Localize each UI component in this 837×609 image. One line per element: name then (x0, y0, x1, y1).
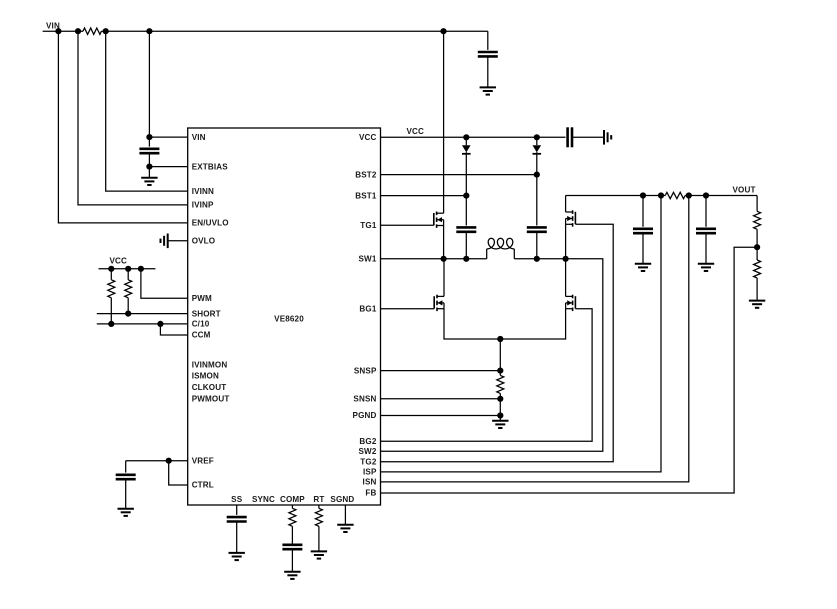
wire VREF (126, 460, 188, 462)
wire PWM (141, 269, 188, 298)
ground input cap (480, 87, 496, 94)
svg-text:SW1: SW1 (359, 255, 377, 264)
pin label CLKOUT (192, 383, 227, 392)
svg-text:IVINMON: IVINMON (192, 361, 228, 370)
wire BG1 (381, 308, 435, 310)
capacitor C8 BST2 (527, 175, 547, 259)
ground EXTBIAS cap (141, 178, 157, 185)
svg-text:FB: FB (365, 489, 376, 498)
wire SW2 rail (514, 258, 565, 260)
pin label PWM (192, 294, 212, 303)
transistor Q4 (566, 295, 576, 311)
svg-text:VCC: VCC (110, 257, 128, 266)
wire SS (236, 505, 238, 515)
pin label SNSN (353, 395, 376, 404)
svg-text:BG2: BG2 (359, 437, 376, 446)
wire SNSN (381, 398, 501, 400)
U1 name label (274, 315, 304, 324)
wire FB gnd (756, 278, 758, 301)
pin label ISN (363, 478, 377, 487)
junction FB (754, 244, 760, 250)
wire COMP (291, 505, 293, 508)
capacitor C5 COMP (282, 545, 302, 572)
transistor Q3 (566, 210, 576, 226)
ground FB divider (749, 301, 765, 308)
resistor R4 COMP (289, 508, 296, 526)
svg-text:SGND: SGND (330, 495, 354, 504)
capacitor C6 VCC bypass (568, 127, 604, 147)
wire Q2 drain (443, 259, 445, 297)
svg-text:VIN: VIN (192, 133, 206, 142)
junction VCC D1 (463, 134, 469, 140)
pin label BG2 (359, 437, 376, 446)
wire VCC net (381, 136, 566, 138)
svg-text:BST1: BST1 (355, 191, 377, 200)
svg-text:BST2: BST2 (355, 170, 377, 179)
resistor R6 sense (497, 375, 504, 393)
junction VIN rail d (146, 28, 152, 34)
pin label SS (231, 495, 243, 504)
svg-text:SHORT: SHORT (192, 309, 221, 318)
svg-text:TG2: TG2 (360, 458, 377, 467)
wire COMP mid (291, 526, 293, 545)
wire EXTBIAS pin (149, 166, 187, 168)
wire SGND (344, 505, 346, 525)
pin label SGND (330, 495, 354, 504)
wire BST1 (381, 195, 467, 197)
svg-text:IVINN: IVINN (192, 187, 214, 196)
wire EXTBIAS drop (148, 153, 150, 178)
ground PGND (492, 421, 508, 428)
pin label PWMOUT (192, 395, 230, 404)
wire SW2 to pin (381, 259, 603, 451)
junction VIN rail e (440, 28, 446, 34)
node VIN label (46, 22, 60, 31)
pin label CTRL (192, 481, 214, 490)
svg-text:C/10: C/10 (192, 320, 210, 329)
junction VCC bar b (125, 266, 131, 272)
node VCC label left (110, 257, 128, 266)
svg-text:PGND: PGND (353, 411, 377, 420)
junction VOUT c (686, 192, 692, 198)
wire Q4 source (500, 303, 565, 339)
wire VIN rail left (43, 30, 83, 32)
wire Q4 drain (565, 259, 567, 297)
ground RT (311, 551, 327, 558)
junction VOUT b (658, 192, 664, 198)
wire FB mid (756, 229, 758, 260)
svg-text:VCC: VCC (407, 127, 425, 136)
wire VOUT rail (566, 195, 666, 197)
wire VOUT drop (756, 196, 758, 212)
pin label IVINMON (192, 361, 228, 370)
svg-text:TG1: TG1 (360, 221, 377, 230)
pin label ISP (363, 468, 377, 477)
diode D2 (533, 137, 542, 174)
junction C/10 R2 (108, 321, 114, 327)
wire SNSP (381, 370, 501, 372)
wire CTRL (169, 461, 188, 485)
pin label VCC (359, 133, 377, 142)
pin label EN/UVLO (192, 219, 229, 228)
wire VOUT rail b (685, 195, 757, 197)
svg-text:VOUT: VOUT (733, 185, 756, 194)
svg-text:CTRL: CTRL (192, 481, 214, 490)
wire EN/UVLO (58, 31, 187, 223)
svg-text:SYNC: SYNC (252, 495, 275, 504)
pin label C/10 (192, 320, 210, 329)
svg-text:IVINP: IVINP (192, 201, 214, 210)
ground VREF cap (118, 509, 134, 516)
wire OVLO (168, 240, 188, 242)
svg-text:VREF: VREF (192, 456, 214, 465)
wire RT (318, 505, 320, 508)
junction VOUT a (640, 192, 646, 198)
pin label PGND (353, 411, 377, 420)
svg-text:ISP: ISP (363, 468, 377, 477)
ground SGND (337, 525, 353, 532)
junction SNSN (497, 396, 503, 402)
junction VIN rail a (55, 28, 61, 34)
wire Q3 drain (565, 196, 567, 213)
wire Q3 source (565, 219, 567, 259)
resistor R9 feedback bottom (754, 260, 761, 278)
ground VCC cap (604, 130, 611, 145)
svg-text:COMP: COMP (280, 495, 305, 504)
wire sense top (499, 339, 501, 375)
svg-text:ISMON: ISMON (192, 372, 219, 381)
wire TG1 (381, 224, 434, 226)
pin label SHORT (192, 309, 221, 318)
wire VCC bar (99, 268, 156, 270)
wire VIN pin drop (148, 31, 150, 146)
diode D1 (462, 137, 471, 195)
resistor R7 current sense (665, 192, 685, 198)
junction SW2 a (534, 256, 540, 262)
capacitor C4 SS (227, 517, 247, 553)
wire VIN rail right (101, 30, 487, 32)
junction C/10 branch (157, 321, 163, 327)
capacitor C7 BST1 (456, 196, 476, 259)
ground SS cap (229, 553, 245, 560)
wire Q2 source (444, 303, 500, 339)
wire BG2 (381, 309, 593, 442)
resistor R3 pullup (125, 269, 132, 314)
pin label VIN (192, 133, 206, 142)
capacitor C10 output (696, 196, 716, 264)
svg-text:CCM: CCM (192, 331, 211, 340)
transistor Q1 (434, 212, 444, 228)
wire PGND (381, 415, 501, 417)
svg-text:EXTBIAS: EXTBIAS (192, 162, 229, 171)
junction SNSP (497, 368, 503, 374)
pin label COMP (280, 495, 305, 504)
svg-text:CLKOUT: CLKOUT (192, 383, 227, 392)
capacitor C2 EXTBIAS (139, 149, 159, 153)
wire C/10 (97, 323, 188, 325)
svg-text:SS: SS (231, 495, 243, 504)
wire CCM (160, 324, 187, 335)
wire Q1 drain (443, 31, 445, 213)
pin label SYNC (252, 495, 275, 504)
pin label OVLO (192, 237, 216, 246)
resistor R2 pullup (108, 269, 115, 324)
wire Q1 source (443, 220, 445, 259)
svg-text:SNSN: SNSN (353, 395, 376, 404)
ground OVLO (161, 234, 168, 249)
resistor R1 input rail (83, 28, 101, 34)
wire IVINP (78, 31, 188, 205)
svg-text:SW2: SW2 (359, 447, 377, 456)
svg-text:SNSP: SNSP (354, 366, 377, 375)
svg-text:VCC: VCC (359, 133, 377, 142)
pin label TG2 (360, 458, 377, 467)
svg-text:VE8620: VE8620 (274, 315, 304, 324)
resistor R5 RT (315, 508, 322, 551)
svg-text:RT: RT (313, 495, 324, 504)
capacitor C9 output (633, 196, 653, 264)
junction SW2 b (563, 256, 569, 262)
ground C10 (698, 264, 714, 271)
pin label SW1 (359, 255, 377, 264)
wire IVINN (106, 31, 188, 191)
pin label IVINP (192, 201, 214, 210)
svg-text:EN/UVLO: EN/UVLO (192, 219, 229, 228)
pin label BST1 (355, 191, 377, 200)
wire ISP (381, 196, 662, 472)
pin label CCM (192, 331, 211, 340)
junction VCC bar c (138, 266, 144, 272)
junction VCC bar a (108, 266, 114, 272)
svg-text:OVLO: OVLO (192, 237, 216, 246)
pin label VREF (192, 456, 214, 465)
node VOUT label (733, 185, 756, 194)
wire BST2 (381, 174, 537, 176)
junction BST2 (534, 172, 540, 178)
junction VCC D2 (534, 134, 540, 140)
junction SW1 a (441, 256, 447, 262)
pin label BG1 (359, 305, 376, 314)
pin label ISMON (192, 372, 219, 381)
pin label SW2 (359, 447, 377, 456)
ground C9 (635, 264, 651, 271)
wire FB (381, 247, 758, 493)
inductor L1 (487, 238, 515, 258)
junction VREF (166, 458, 172, 464)
pin label EXTBIAS (192, 162, 229, 171)
pin label IVINN (192, 187, 214, 196)
ground COMP (284, 572, 300, 579)
junction VOUT d (703, 192, 709, 198)
wire ISN (381, 196, 689, 482)
op-amp U1 VE8620 box (188, 128, 381, 505)
wire TG2 (381, 224, 614, 462)
capacitor C1 input bypass (478, 31, 498, 87)
pin label BST2 (355, 170, 377, 179)
transistor Q2 (434, 295, 444, 311)
junction SHORT (125, 311, 131, 317)
pin label RT (313, 495, 324, 504)
junction SW1 b (463, 256, 469, 262)
node VCC label right (407, 127, 425, 136)
capacitor C3 VREF (116, 461, 136, 509)
svg-text:PWMOUT: PWMOUT (192, 395, 230, 404)
junction EXTBIAS (146, 164, 152, 170)
junction VIN rail c (103, 28, 109, 34)
junction bottom rail (497, 336, 503, 342)
junction PGND (497, 412, 503, 418)
wire SW1 (381, 258, 487, 260)
svg-text:BG1: BG1 (359, 305, 376, 314)
svg-text:ISN: ISN (363, 478, 377, 487)
pin label FB (365, 489, 376, 498)
pin label TG1 (360, 221, 377, 230)
junction VIN rail b (75, 28, 81, 34)
wire VIN pin (149, 136, 187, 138)
junction BST1 (463, 193, 469, 199)
junction VIN pin (146, 134, 152, 140)
resistor R8 feedback top (754, 211, 761, 229)
pin label SNSP (354, 366, 377, 375)
svg-text:PWM: PWM (192, 294, 212, 303)
wire SHORT (97, 313, 188, 315)
wire sense bottom (499, 393, 501, 420)
